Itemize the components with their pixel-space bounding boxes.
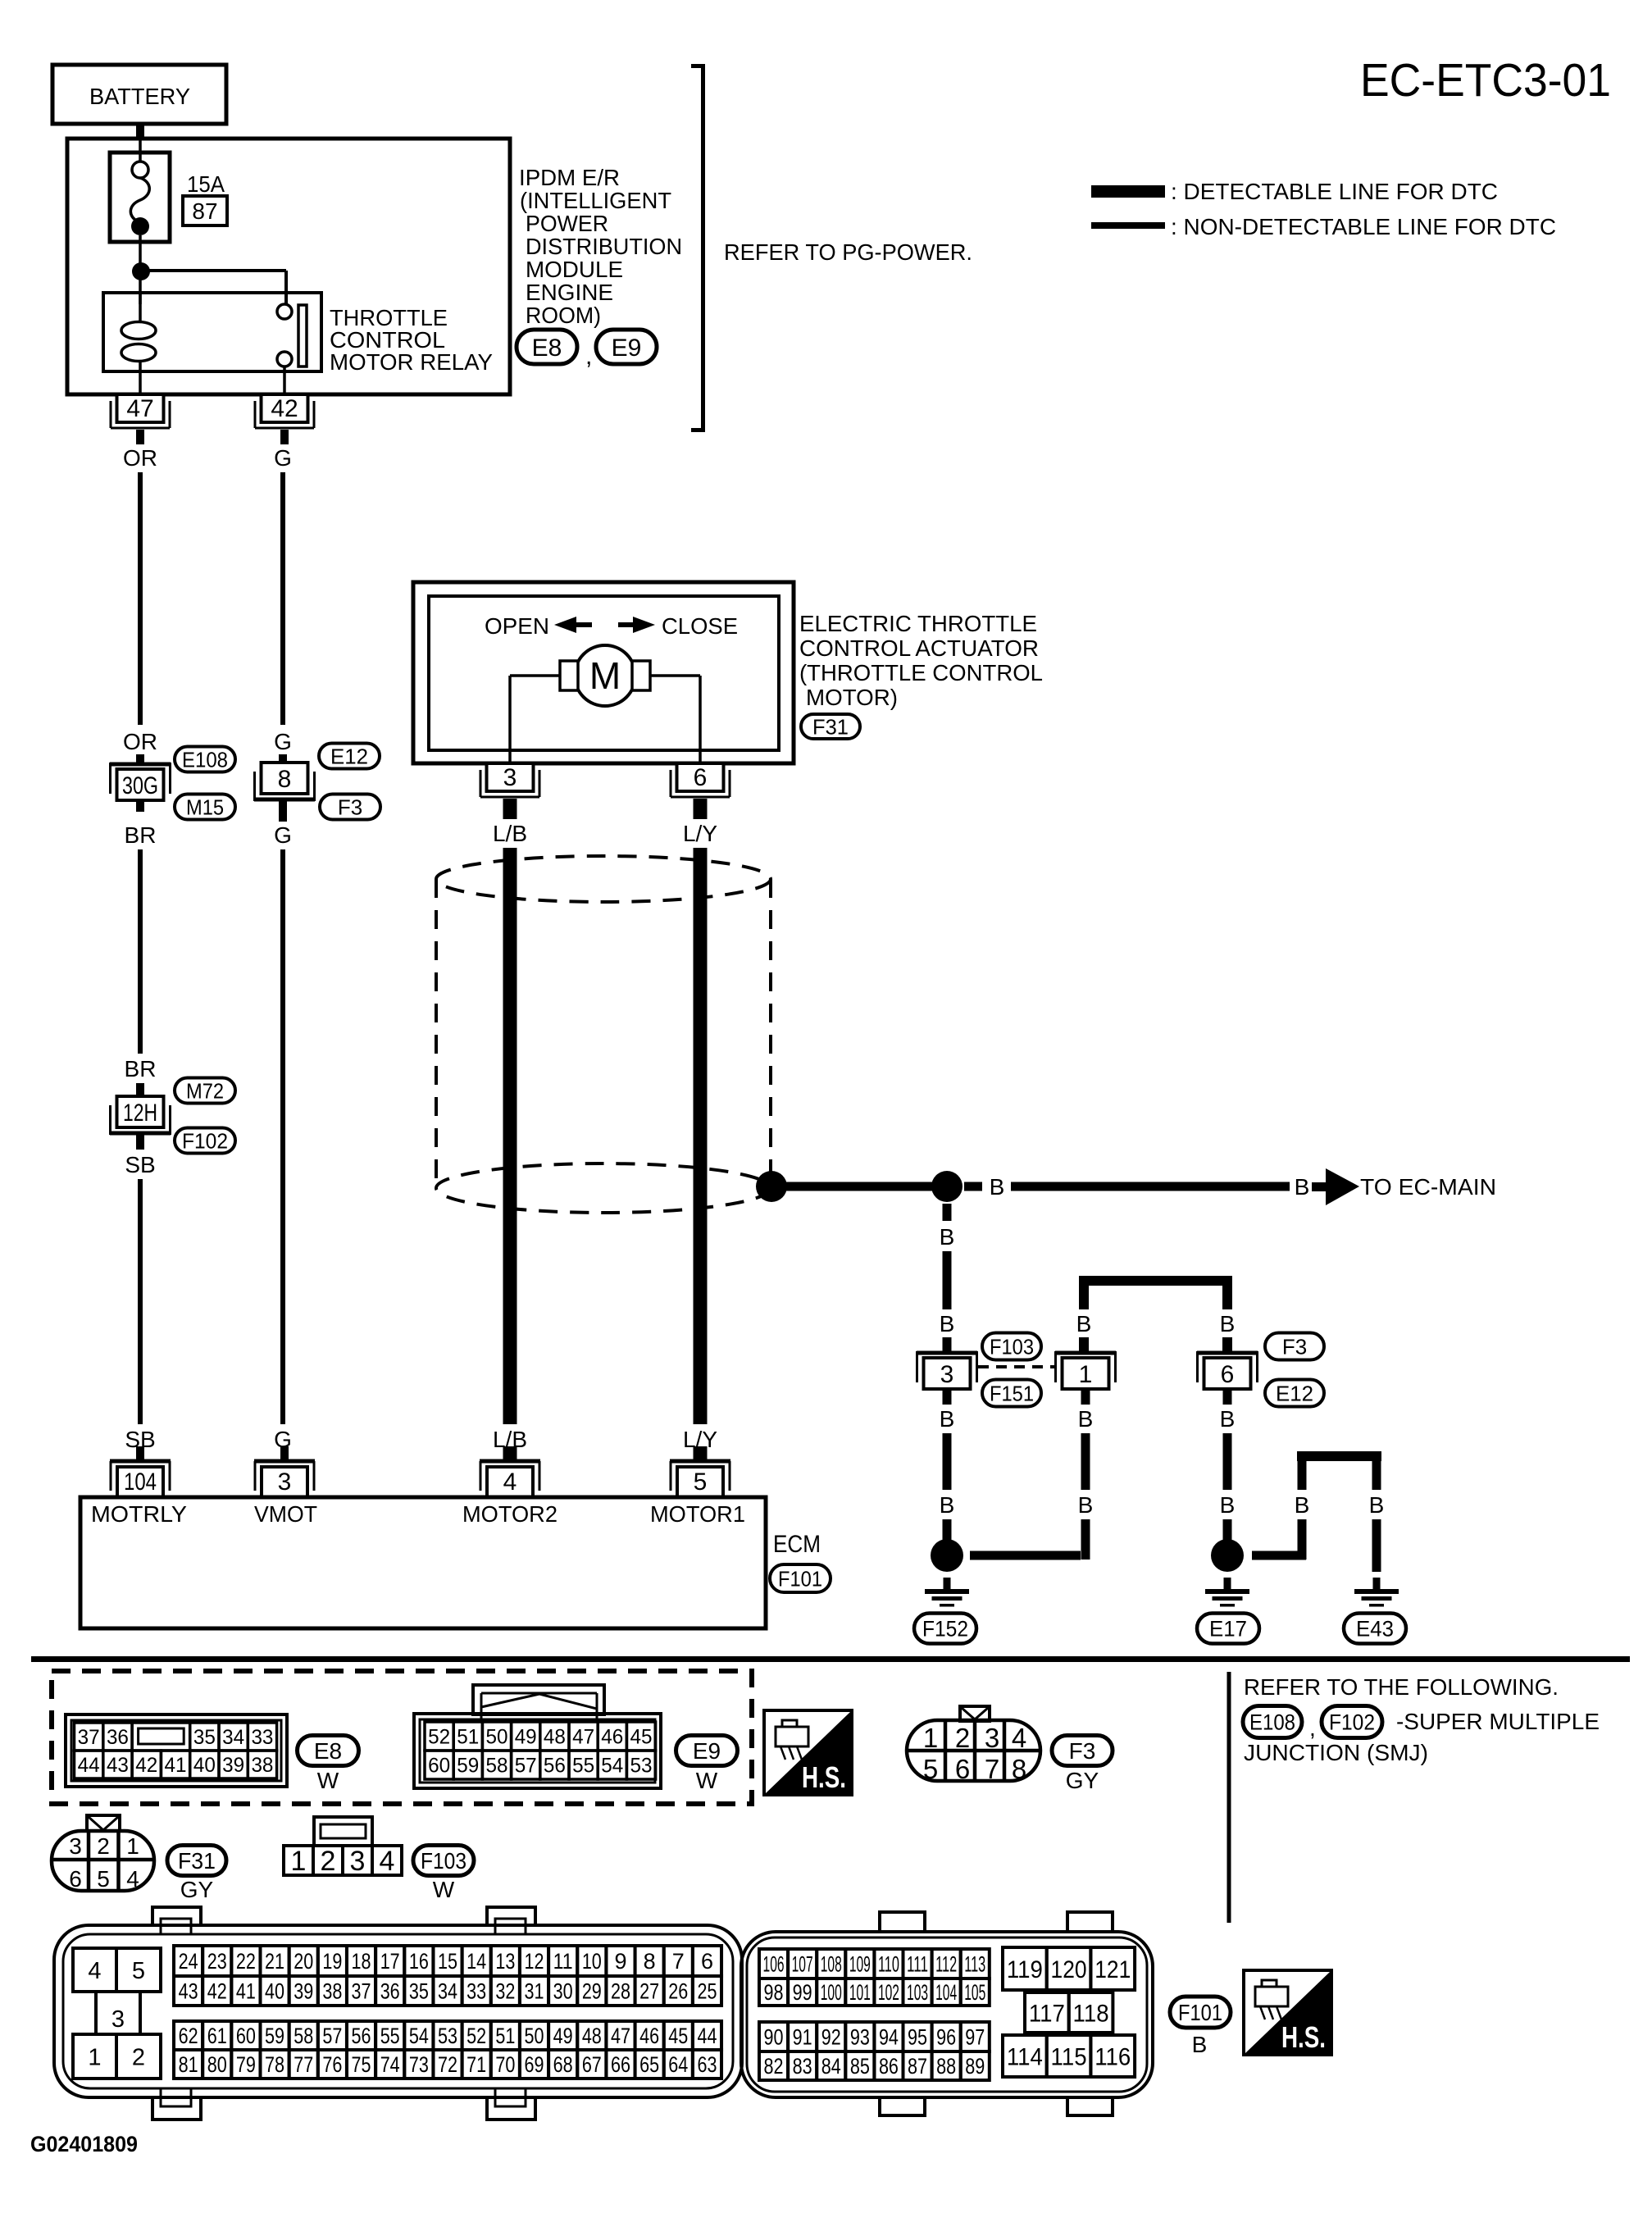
svg-text:4: 4	[88, 1958, 101, 1984]
svg-text:24: 24	[179, 1949, 198, 1974]
svg-text:B: B	[1369, 1492, 1385, 1518]
wire stub into 30G	[136, 754, 144, 764]
node B junction	[931, 1171, 963, 1202]
ECM view pin grid 82-113	[759, 1949, 990, 2080]
svg-text:51: 51	[495, 2024, 515, 2048]
connector F103 view ref	[413, 1846, 474, 1903]
svg-text:M72: M72	[186, 1078, 224, 1103]
svg-text:39: 39	[222, 1754, 244, 1777]
title EC-ETC3-01	[1360, 54, 1611, 107]
svg-text:40: 40	[265, 1979, 284, 2004]
svg-text:86: 86	[879, 2054, 899, 2079]
relay contact	[277, 304, 307, 367]
wire G segment	[280, 472, 285, 725]
svg-text:113: 113	[964, 1952, 985, 1977]
wire OR label 2	[123, 729, 157, 754]
svg-text:VMOT: VMOT	[254, 1501, 317, 1527]
svg-text:87: 87	[192, 198, 217, 224]
connector 12H (SMJ)	[110, 1096, 171, 1135]
svg-text:E9: E9	[612, 335, 642, 362]
wire L/B label 2	[493, 1427, 527, 1452]
ECM terminal labels	[91, 1501, 745, 1527]
connector F31 view ref	[167, 1846, 226, 1903]
svg-text:75: 75	[352, 2052, 371, 2077]
svg-text:103: 103	[907, 1980, 928, 2005]
ground node E17	[1211, 1539, 1244, 1572]
wire B leg 1	[1076, 1281, 1092, 1353]
svg-text:47: 47	[126, 395, 153, 422]
svg-text:48: 48	[544, 1726, 566, 1749]
svg-text:BATTERY: BATTERY	[89, 84, 190, 109]
svg-text:CLOSE: CLOSE	[662, 613, 738, 639]
svg-text:E8: E8	[314, 1738, 342, 1764]
svg-text:17: 17	[380, 1949, 400, 1974]
svg-text:OPEN: OPEN	[485, 613, 549, 639]
svg-text:42: 42	[271, 395, 298, 422]
fuse label 15A	[187, 171, 225, 197]
svg-text:56: 56	[352, 2024, 371, 2048]
svg-text:2: 2	[321, 1846, 336, 1877]
svg-text:46: 46	[639, 2024, 659, 2048]
wire B to EC-MAIN	[964, 1174, 1327, 1200]
connector E8 view ref	[298, 1736, 359, 1794]
electric throttle control actuator box	[413, 582, 794, 763]
svg-text:36: 36	[107, 1726, 129, 1749]
svg-text:49: 49	[515, 1726, 537, 1749]
ECM pin 5 MOTOR1	[670, 1446, 730, 1497]
actuator pin 6	[671, 763, 730, 819]
shield cylinder	[436, 856, 771, 1213]
wire BR label	[125, 822, 157, 848]
svg-text:B: B	[940, 1492, 955, 1518]
wire SB label	[125, 1152, 155, 1177]
svg-text:23: 23	[207, 1949, 227, 1974]
ECM box	[80, 1497, 766, 1628]
svg-text:,: ,	[585, 343, 592, 370]
wire relay contact to pin 42	[283, 367, 286, 394]
svg-text:58: 58	[486, 1755, 508, 1778]
svg-text:14: 14	[466, 1949, 486, 1974]
svg-text:104: 104	[935, 1980, 957, 2005]
IPDM E/R box	[67, 139, 510, 394]
svg-text:104: 104	[124, 1469, 157, 1496]
svg-text:21: 21	[265, 1949, 284, 1974]
wire stub below 12H	[136, 1135, 144, 1150]
svg-text:71: 71	[466, 2052, 486, 2077]
svg-text:45: 45	[668, 2024, 688, 2048]
svg-text:91: 91	[793, 2025, 812, 2050]
svg-text:19: 19	[322, 1949, 342, 1974]
connector F31 view	[52, 1815, 154, 1892]
svg-text:B: B	[1295, 1492, 1310, 1518]
svg-text:JUNCTION (SMJ): JUNCTION (SMJ)	[1244, 1740, 1428, 1765]
svg-text:18: 18	[352, 1949, 371, 1974]
svg-text:E108: E108	[1249, 1710, 1295, 1735]
svg-text:41: 41	[165, 1754, 187, 1777]
connector F103 ref 2	[982, 1333, 1041, 1360]
wire L/B label	[493, 821, 527, 846]
svg-text:57: 57	[322, 2024, 342, 2048]
svg-text:13: 13	[495, 1949, 515, 1974]
svg-text:94: 94	[879, 2025, 899, 2050]
svg-text:53: 53	[630, 1755, 653, 1778]
svg-text:1: 1	[88, 2044, 101, 2070]
svg-text:MOTOR1: MOTOR1	[650, 1501, 745, 1527]
svg-text:6: 6	[694, 764, 708, 791]
connector F151 ref	[982, 1380, 1041, 1407]
bracket IPDM refer	[691, 64, 705, 432]
svg-text:65: 65	[639, 2052, 659, 2077]
IPDM label	[519, 165, 682, 328]
svg-text:44: 44	[697, 2024, 717, 2048]
connector F3 ref	[320, 795, 380, 820]
svg-text:1: 1	[1079, 1361, 1093, 1388]
svg-text:H.S.: H.S.	[1281, 2020, 1326, 2054]
open close arrows	[485, 613, 738, 639]
svg-text:6: 6	[955, 1754, 970, 1784]
svg-text:1: 1	[923, 1723, 938, 1753]
svg-text:118: 118	[1073, 2000, 1109, 2027]
fuse 15A	[110, 153, 170, 263]
ECM connector view right shell	[741, 1912, 1153, 2115]
svg-text:38: 38	[322, 1979, 342, 2004]
svg-text:G: G	[274, 822, 292, 848]
connector E9 ref	[596, 330, 657, 364]
svg-text:ECM: ECM	[773, 1531, 821, 1558]
figure id G02401809	[30, 2132, 138, 2156]
svg-text:120: 120	[1051, 1956, 1087, 1983]
svg-text:B: B	[1078, 1406, 1094, 1432]
svg-text:110: 110	[878, 1952, 899, 1977]
wire E43 leg	[1369, 1456, 1385, 1572]
fuse pin 87 box	[183, 196, 227, 225]
svg-text:2: 2	[97, 1833, 110, 1859]
svg-text:89: 89	[965, 2054, 985, 2079]
svg-text:F103: F103	[990, 1334, 1034, 1359]
svg-text:L/B: L/B	[493, 821, 527, 846]
svg-text:W: W	[696, 1768, 718, 1793]
svg-text:42: 42	[207, 1979, 227, 2004]
svg-text:F31: F31	[178, 1848, 216, 1874]
svg-text:50: 50	[486, 1726, 508, 1749]
svg-text:F3: F3	[1069, 1738, 1096, 1764]
svg-text:35: 35	[193, 1726, 216, 1749]
svg-text:F3: F3	[1282, 1334, 1307, 1359]
svg-text:50: 50	[525, 2024, 544, 2048]
svg-text:47: 47	[611, 2024, 630, 2048]
actuator pin 3	[480, 763, 539, 819]
svg-text:5: 5	[923, 1754, 938, 1784]
svg-text:40: 40	[193, 1754, 216, 1777]
svg-text:48: 48	[582, 2024, 602, 2048]
svg-text:ROOM): ROOM)	[526, 303, 601, 328]
connector E9 view ref	[676, 1736, 738, 1794]
svg-text:1: 1	[291, 1846, 307, 1877]
svg-text:4: 4	[1012, 1723, 1026, 1753]
svg-text:,: ,	[1309, 1715, 1316, 1741]
refer to following label	[1244, 1674, 1559, 1700]
svg-text:105: 105	[964, 1980, 985, 2005]
svg-text:22: 22	[236, 1949, 256, 1974]
wire G label 3	[274, 822, 292, 848]
connector E43 ref	[1344, 1614, 1406, 1644]
svg-text:30G: 30G	[122, 772, 158, 799]
svg-text:12: 12	[525, 1949, 544, 1974]
svg-text:10: 10	[582, 1949, 602, 1974]
ground node F152	[931, 1539, 963, 1572]
svg-text:27: 27	[639, 1979, 659, 2004]
vertical divider	[1227, 1672, 1231, 1923]
shield drain node	[756, 1171, 787, 1202]
wire B leg 6	[1220, 1281, 1236, 1353]
relay label	[330, 305, 493, 375]
svg-text:88: 88	[936, 2054, 956, 2079]
dashed connector area box	[52, 1671, 752, 1804]
svg-text:119: 119	[1007, 1956, 1043, 1983]
svg-text:111: 111	[907, 1952, 928, 1977]
svg-text:CONTROL ACTUATOR: CONTROL ACTUATOR	[799, 635, 1039, 661]
svg-text:F3: F3	[338, 795, 362, 819]
wire motor to pin 6	[650, 676, 700, 763]
wire below connector 1	[970, 1389, 1093, 1560]
wire SB segment	[138, 1179, 143, 1424]
wire relay coil to pin 47	[139, 371, 142, 394]
wire G label 2	[274, 729, 292, 754]
wire battery to IPDM	[136, 124, 144, 162]
svg-text:F101: F101	[1178, 2000, 1222, 2025]
svg-text:115: 115	[1051, 2043, 1087, 2070]
connector 1	[1055, 1351, 1116, 1389]
wire L/Y label	[683, 821, 717, 846]
svg-text:: NON-DETECTABLE LINE FOR DTC: : NON-DETECTABLE LINE FOR DTC	[1171, 214, 1556, 239]
svg-text:34: 34	[438, 1979, 457, 2004]
svg-text:77: 77	[294, 2052, 313, 2077]
wire below connector 3	[940, 1389, 955, 1540]
svg-text:B: B	[1220, 1311, 1236, 1336]
to EC-MAIN label	[1360, 1174, 1496, 1200]
super multiple junction label	[1244, 1709, 1600, 1765]
svg-text:REFER TO THE FOLLOWING.: REFER TO THE FOLLOWING.	[1244, 1674, 1559, 1700]
ground F152	[925, 1578, 969, 1607]
svg-text:41: 41	[236, 1979, 256, 2004]
svg-text:74: 74	[380, 2052, 400, 2077]
svg-text:E43: E43	[1356, 1617, 1394, 1642]
svg-text:F102: F102	[182, 1128, 228, 1153]
svg-text:B: B	[940, 1224, 955, 1250]
svg-text:B: B	[990, 1174, 1005, 1200]
svg-text:37: 37	[78, 1726, 100, 1749]
svg-text:55: 55	[380, 2024, 400, 2048]
svg-text:3: 3	[503, 764, 517, 791]
svg-text:MOTOR RELAY: MOTOR RELAY	[330, 349, 493, 375]
svg-text:L/Y: L/Y	[683, 821, 717, 846]
svg-text:B: B	[1078, 1492, 1094, 1518]
svg-text:E17: E17	[1209, 1617, 1247, 1642]
svg-text:G: G	[274, 445, 292, 471]
ECM connector view left shell	[54, 1907, 742, 2120]
svg-text:11: 11	[553, 1949, 573, 1974]
svg-text:TO EC-MAIN: TO EC-MAIN	[1360, 1174, 1496, 1200]
ground E17	[1205, 1578, 1249, 1607]
wire drain to node B	[771, 1182, 947, 1191]
svg-text:ELECTRIC THROTTLE: ELECTRIC THROTTLE	[799, 611, 1037, 636]
wire junction to relay coil	[139, 271, 142, 304]
wire below connector 6	[1220, 1389, 1236, 1540]
svg-text:72: 72	[438, 2052, 457, 2077]
wire OR segment	[138, 472, 143, 725]
svg-text:30: 30	[553, 1979, 573, 2004]
svg-text:31: 31	[525, 1979, 544, 2004]
svg-text:117: 117	[1029, 2000, 1065, 2027]
svg-text:79: 79	[236, 2052, 256, 2077]
svg-text:108: 108	[821, 1952, 842, 1977]
svg-text:W: W	[433, 1877, 455, 1902]
ECM pin 104 MOTRLY	[110, 1446, 171, 1497]
svg-text:64: 64	[668, 2052, 688, 2077]
wire G label 4	[274, 1427, 292, 1452]
svg-text:83: 83	[793, 2054, 812, 2079]
ECM view pins 1-5	[73, 1948, 161, 2079]
svg-text:36: 36	[380, 1979, 400, 2004]
svg-text:MOTOR): MOTOR)	[806, 685, 898, 710]
connector E8 ref	[517, 330, 592, 370]
svg-text:80: 80	[207, 2052, 227, 2077]
svg-text:70: 70	[495, 2052, 515, 2077]
wire stub into 8	[279, 754, 287, 764]
connector F103 view	[284, 1817, 402, 1877]
svg-text:8: 8	[278, 766, 292, 793]
svg-text:51: 51	[457, 1726, 479, 1749]
svg-text:B: B	[940, 1406, 955, 1432]
svg-text:(INTELLIGENT: (INTELLIGENT	[520, 188, 671, 213]
svg-text:F101: F101	[778, 1566, 822, 1591]
svg-text:4: 4	[503, 1469, 517, 1496]
IPDM pin 47	[111, 394, 170, 444]
svg-text:107: 107	[792, 1952, 813, 1977]
svg-text:52: 52	[428, 1726, 450, 1749]
svg-text:62: 62	[179, 2024, 198, 2048]
svg-text:54: 54	[409, 2024, 429, 2048]
connector F102 ref	[175, 1128, 235, 1154]
svg-text:M15: M15	[186, 795, 224, 819]
svg-text:38: 38	[251, 1754, 273, 1777]
svg-text:15A: 15A	[187, 171, 225, 197]
svg-text:57: 57	[515, 1755, 537, 1778]
connector E108 ref	[175, 747, 235, 772]
wire SB label 2	[125, 1427, 155, 1452]
svg-text:6: 6	[69, 1866, 82, 1892]
svg-text:42: 42	[135, 1754, 157, 1777]
wire L/Y label 2	[683, 1427, 717, 1452]
svg-text:99: 99	[793, 1980, 812, 2005]
svg-text:ENGINE: ENGINE	[526, 280, 613, 305]
battery	[52, 65, 226, 124]
svg-text:45: 45	[630, 1726, 653, 1749]
svg-text:87: 87	[908, 2054, 927, 2079]
svg-text:3: 3	[111, 2006, 125, 2033]
svg-text:49: 49	[553, 2024, 573, 2048]
svg-text:54: 54	[601, 1755, 623, 1778]
svg-text:112: 112	[935, 1952, 957, 1977]
wire G label	[274, 445, 292, 471]
wire motor to pin 3	[510, 676, 560, 763]
svg-text:59: 59	[265, 2024, 284, 2048]
svg-text:100: 100	[821, 1980, 842, 2005]
connector F3 view ref	[1052, 1736, 1113, 1794]
wire stub below 8	[279, 801, 287, 822]
svg-text:37: 37	[352, 1979, 371, 2004]
svg-text:4: 4	[380, 1846, 395, 1877]
svg-text:B: B	[1295, 1174, 1310, 1200]
svg-text:20: 20	[294, 1949, 313, 1974]
svg-text:9: 9	[614, 1949, 626, 1974]
svg-text:MOTOR2: MOTOR2	[462, 1501, 557, 1527]
svg-text:2: 2	[132, 2044, 145, 2070]
IPDM pin 42	[255, 394, 314, 444]
svg-text:6: 6	[1221, 1361, 1235, 1388]
svg-text:90: 90	[764, 2025, 784, 2050]
svg-text:F103: F103	[421, 1848, 466, 1874]
svg-text:73: 73	[409, 2052, 429, 2077]
svg-text:12H: 12H	[123, 1100, 157, 1127]
ground E43	[1354, 1578, 1399, 1607]
svg-text:95: 95	[908, 2025, 927, 2050]
svg-text:MOTRLY: MOTRLY	[91, 1501, 187, 1527]
svg-text:81: 81	[179, 2052, 198, 2077]
svg-text:F31: F31	[812, 714, 849, 739]
svg-text:B: B	[1220, 1406, 1236, 1432]
connector F101 view ref	[1170, 1997, 1231, 2057]
arrow to EC-MAIN	[1326, 1168, 1359, 1205]
ECM view pins 114-121	[1003, 1947, 1135, 2077]
connector 8 (SMJ)	[254, 763, 315, 801]
ECM pin 4 MOTOR2	[480, 1446, 540, 1497]
svg-text:E12: E12	[1276, 1381, 1313, 1405]
svg-text:98: 98	[764, 1980, 784, 2005]
svg-text:2: 2	[955, 1723, 970, 1753]
svg-text:66: 66	[611, 2052, 630, 2077]
connector 6 F3	[1197, 1351, 1258, 1389]
wire junction to relay contact	[141, 271, 286, 304]
svg-text:44: 44	[78, 1754, 100, 1777]
svg-text:F152: F152	[922, 1617, 968, 1642]
svg-text:53: 53	[438, 2024, 457, 2048]
wire OR label	[123, 445, 157, 471]
svg-text:59: 59	[457, 1755, 479, 1778]
svg-text:MODULE: MODULE	[526, 257, 623, 282]
svg-text:29: 29	[582, 1979, 602, 2004]
svg-text:67: 67	[582, 2052, 602, 2077]
svg-text:121: 121	[1095, 1956, 1131, 1983]
svg-text:16: 16	[409, 1949, 429, 1974]
dashed link connector 3 to 1	[978, 1365, 1054, 1368]
svg-text:69: 69	[525, 2052, 544, 2077]
view point H.S. bottom	[1244, 1970, 1331, 2055]
connector F3 view	[907, 1706, 1040, 1784]
connector E12 ref	[319, 744, 380, 769]
svg-text:96: 96	[936, 2025, 956, 2050]
connector E108 F102 refs	[1243, 1706, 1382, 1742]
svg-text:32: 32	[495, 1979, 515, 2004]
actuator label	[799, 611, 1043, 710]
svg-text:BR: BR	[125, 1056, 157, 1081]
svg-text:B: B	[940, 1311, 955, 1336]
svg-text:3: 3	[985, 1723, 999, 1753]
svg-text:5: 5	[97, 1866, 110, 1892]
svg-text:H.S.: H.S.	[802, 1760, 846, 1794]
svg-text:B: B	[1220, 1492, 1236, 1518]
connector E8 view	[66, 1714, 287, 1787]
